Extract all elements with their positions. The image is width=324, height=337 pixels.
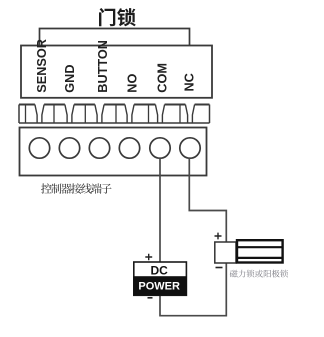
svg-text:COM: COM bbox=[155, 63, 169, 93]
svg-text:GND: GND bbox=[63, 64, 77, 92]
svg-text:SENSOR: SENSOR bbox=[35, 39, 49, 93]
svg-text:BUTTON: BUTTON bbox=[96, 40, 110, 93]
svg-text:POWER: POWER bbox=[138, 280, 180, 292]
svg-text:DC: DC bbox=[151, 263, 169, 277]
svg-text:NO: NO bbox=[126, 74, 140, 93]
svg-text:NC: NC bbox=[182, 73, 196, 91]
